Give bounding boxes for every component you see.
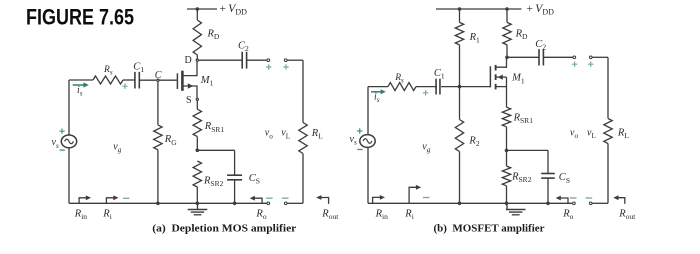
wire C to gate (a)	[160, 79, 177, 81]
bottom terminal vo- (b)	[573, 202, 576, 205]
svg-text:S: S	[186, 95, 192, 106]
arrow Rin (a)	[79, 198, 86, 204]
transistor M1 (b) channel segment body	[495, 74, 497, 80]
arrow Ro (b)	[560, 198, 568, 203]
capacitor CS (a)	[234, 150, 236, 175]
resistor Rs (a)	[93, 76, 123, 84]
svg-text:FIGURE 7.65: FIGURE 7.65	[26, 4, 134, 29]
node D (a)	[196, 59, 198, 61]
transistor M1 (b) drain lead	[497, 57, 507, 67]
arrow Rout (b)	[618, 198, 625, 204]
wire C1 to gate (b)	[441, 86, 490, 88]
resistor RSR2 (a)	[193, 161, 201, 187]
wire input top left (a)	[69, 79, 93, 81]
transistor M1 (a) gate bar	[176, 73, 178, 89]
transistor M1 (b) channel segment drain	[495, 65, 497, 71]
junction RSR2-bus (a)	[196, 202, 200, 206]
ground bus wire (b)	[368, 202, 572, 204]
bottom terminal vL- (a)	[284, 202, 287, 205]
svg-text:D: D	[185, 55, 192, 66]
resistor RD (b)	[506, 9, 508, 22]
svg-text:C: C	[155, 70, 162, 81]
polarity + vo (a)	[266, 64, 271, 69]
wire bottom terminal to RL (a)	[288, 202, 304, 204]
polarity + vL (a)	[283, 64, 288, 69]
resistor RSR2 (b)	[506, 150, 508, 166]
ground bus wire (a)	[69, 202, 267, 204]
arrow Rout (a)	[321, 198, 329, 204]
capacitor C1 (a)	[134, 72, 136, 89]
arrow Ri (b)	[409, 187, 416, 203]
resistor Rs (b)	[388, 83, 416, 91]
wire terminal to RL top (b)	[593, 56, 608, 58]
resistor RL (a)	[302, 60, 304, 122]
junction R1-rail (b)	[458, 7, 462, 11]
svg-text:(b) MOSFET amplifier: (b) MOSFET amplifier	[434, 223, 546, 234]
wire junction to CS (b)	[507, 149, 549, 151]
bottom terminal vL- (b)	[589, 202, 592, 205]
polarity - vL (b)	[586, 197, 593, 199]
ground symbol (a)	[197, 203, 199, 209]
polarity + vL (b)	[588, 62, 593, 67]
transistor M1 (b) channel segment source	[495, 84, 497, 90]
node C (a)	[157, 79, 159, 81]
junction R1/R2/gate (b)	[458, 85, 462, 89]
node VDD (a) junction	[196, 7, 200, 11]
polarity + vo (b)	[572, 62, 577, 67]
transistor M1 (a) channel bar	[181, 71, 184, 91]
resistor RD (a)	[196, 9, 198, 20]
svg-text:(a) Depletion MOS amplifier: (a) Depletion MOS amplifier	[152, 223, 297, 234]
junction CS-bus (a)	[233, 202, 237, 206]
current arrow is (a)	[73, 84, 84, 86]
ground symbol (b)	[506, 203, 508, 209]
resistor R2 (b)	[459, 87, 461, 120]
circuit (b) VDD rail	[436, 8, 522, 10]
transistor M1 (b) body lead with arrow	[497, 76, 507, 78]
arrow Rin (b)	[373, 197, 381, 203]
junction RSR1/RSR2/CS (b)	[505, 149, 509, 153]
polarity + vs (a)	[59, 129, 64, 134]
polarity - vL (a)	[282, 197, 289, 199]
node S (a)	[196, 98, 198, 100]
output terminal vL+ (a)	[284, 59, 287, 62]
wire input top left (b)	[368, 86, 388, 88]
wire bottom terminal to RL (b)	[593, 202, 609, 204]
junction CS-bus (b)	[546, 202, 550, 206]
polarity - vo (a)	[266, 197, 273, 199]
wire terminal to RL top (a)	[288, 59, 304, 61]
junction RG-bus (a)	[156, 202, 160, 206]
resistor RL (b)	[607, 57, 609, 118]
polarity - vo (b)	[570, 197, 577, 199]
drain node (b)	[505, 56, 509, 60]
transistor M1 (a) drain lead	[184, 62, 198, 76]
transistor M1 (b) source lead	[497, 86, 507, 88]
capacitor C2 (a)	[241, 52, 243, 69]
source vs (a)	[68, 80, 70, 135]
resistor RSR1 (b)	[502, 107, 510, 127]
current arrow is (b)	[371, 91, 381, 93]
polarity + vg (b)	[423, 90, 428, 95]
arrow Ri (a)	[106, 198, 114, 204]
junction RSR2-bus (b)	[505, 202, 509, 206]
wire D to C2 (a)	[199, 59, 242, 61]
bottom terminal vo- (a)	[267, 202, 270, 205]
polarity - vs (a)	[60, 149, 65, 151]
wire drain to C2 (b)	[507, 56, 539, 58]
polarity - vg (b)	[423, 197, 430, 199]
junction RSR1/RSR2/CS (a)	[196, 149, 200, 153]
transistor M1 (a) source lead with arrow	[184, 86, 198, 98]
capacitor C1 (b)	[435, 79, 437, 95]
polarity - vs (b)	[357, 149, 362, 151]
capacitor C2 (b)	[538, 49, 540, 65]
polarity - vg (a)	[123, 197, 130, 199]
transistor M1 (b) gate bar	[489, 66, 491, 87]
output terminal vo+ (a)	[267, 59, 270, 62]
junction RD-rail (b)	[505, 7, 509, 11]
junction R2-bus (b)	[458, 202, 462, 206]
source vs (b)	[367, 87, 369, 135]
capacitor CS (b)	[547, 150, 549, 173]
resistor RSR1 (a)	[196, 101, 198, 110]
polarity + vs (b)	[357, 128, 362, 133]
wire junction to CS (a)	[197, 149, 234, 151]
arrow Ro (a)	[254, 198, 262, 203]
resistor R1 (b)	[459, 9, 461, 22]
transistor M1 (b) source vertical	[506, 77, 508, 107]
output terminal vo+ (b)	[573, 56, 576, 59]
resistor RG (a)	[157, 82, 159, 125]
polarity + vg (a)	[122, 84, 127, 89]
circuit (a) VDD rail	[187, 8, 217, 10]
output terminal vL+ (b)	[589, 56, 592, 59]
